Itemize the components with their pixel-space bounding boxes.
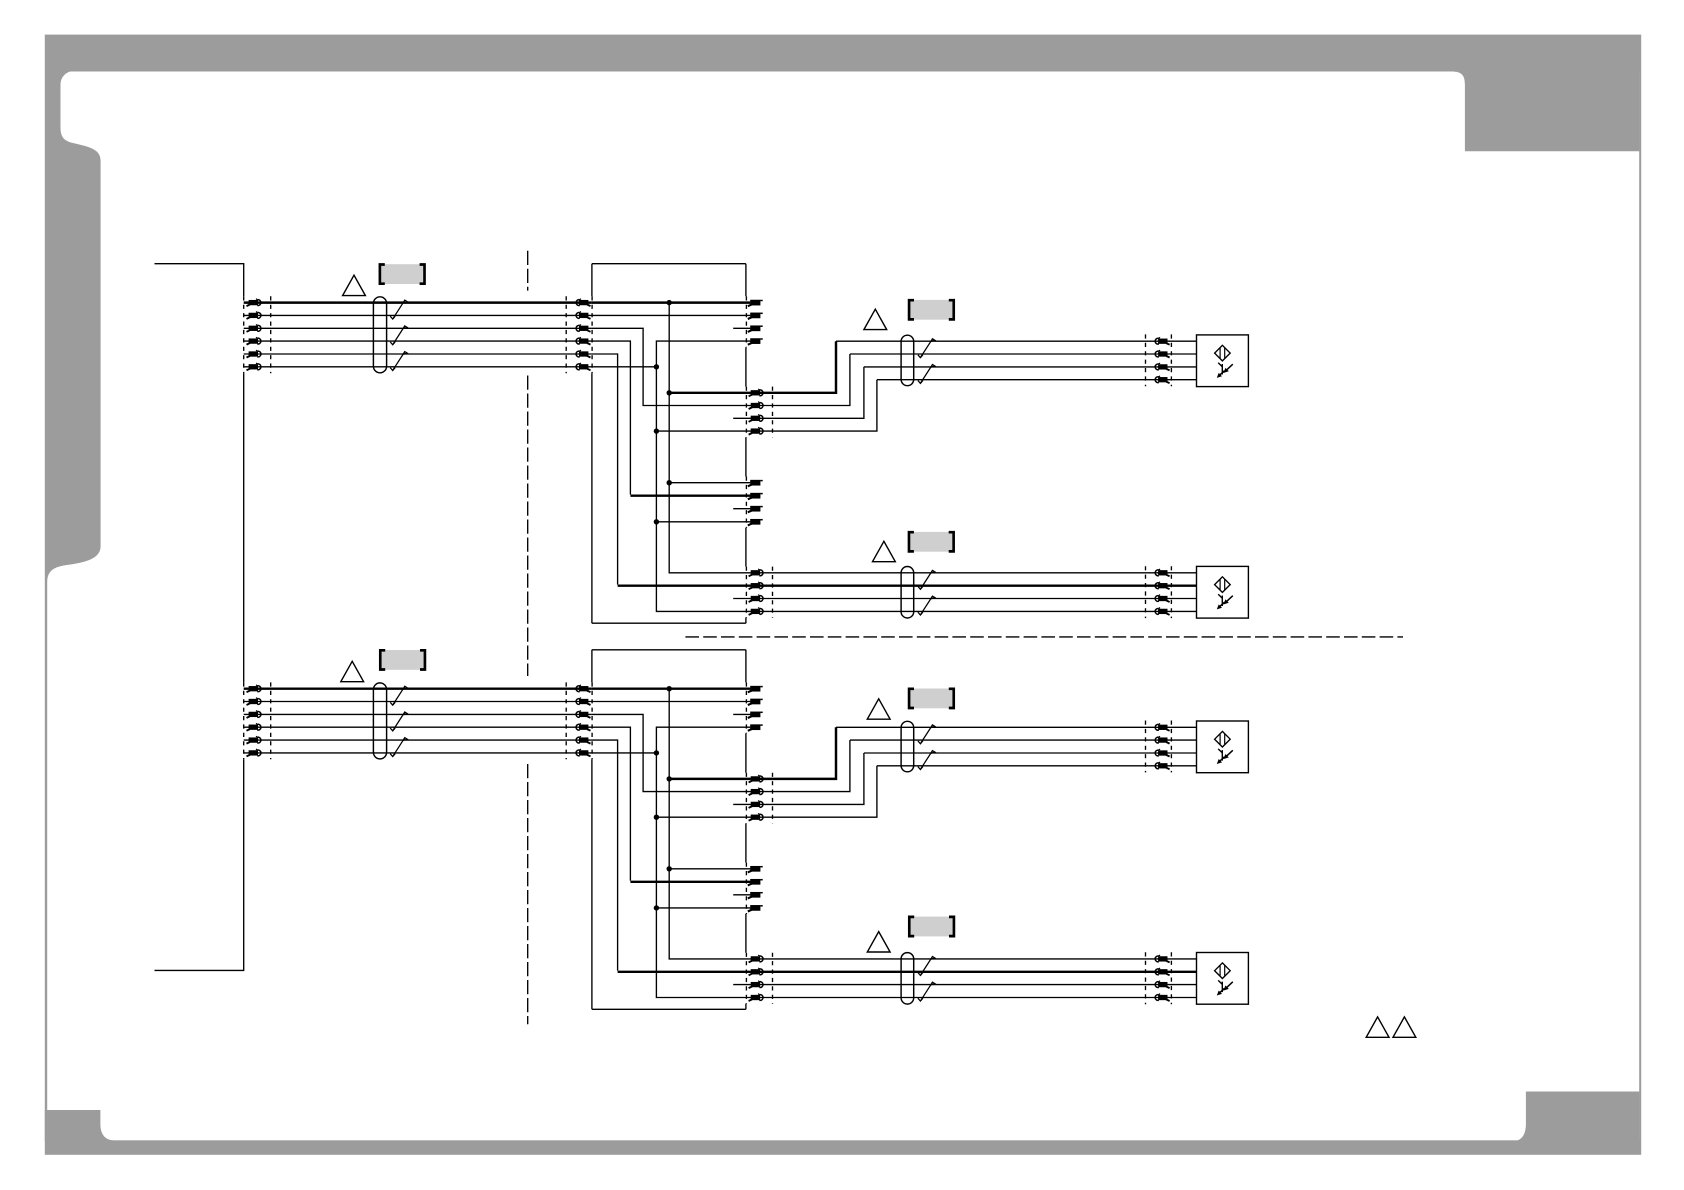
pin (relay box B input 4) xyxy=(576,723,590,730)
pin (relay box B input 3) xyxy=(576,711,590,718)
sensor 1 cable mark (left) xyxy=(1145,721,1147,773)
redacted reference label (sensor cable 1) xyxy=(909,689,954,709)
pin (left unit A1) xyxy=(247,299,261,306)
pin (left unit A3) xyxy=(247,324,261,331)
wire to B4 xyxy=(656,430,751,432)
wire to C4 xyxy=(656,907,750,909)
sensor cable 1 twisted pair 1-2 xyxy=(918,725,935,744)
redacted reference label (harnessB) xyxy=(380,650,425,670)
n.c. stub A3 xyxy=(733,327,750,329)
wire harnessA conductor 4 xyxy=(244,340,592,342)
header pin C1 xyxy=(748,866,763,872)
wire w4 down xyxy=(592,341,631,494)
sensor cable 2 shield xyxy=(901,567,914,619)
junction C1 xyxy=(667,480,672,485)
pin (left unit A4) xyxy=(247,337,261,344)
wire w4 to C2 (thick) xyxy=(630,494,751,496)
photo sensor unit 1 xyxy=(1197,335,1249,387)
pin (left unit B4) xyxy=(247,723,261,730)
junction B4 xyxy=(654,428,659,433)
pin (relay box A input 5) xyxy=(576,350,590,357)
relay box group-C boundary xyxy=(745,477,747,528)
relay box group-B boundary xyxy=(745,387,747,438)
wire to B1 (thick) xyxy=(669,778,751,780)
photo sensor unit 2 xyxy=(1197,953,1249,1005)
pin (left unit A2) xyxy=(247,312,261,319)
sensor cable 2 conductor 2 xyxy=(751,584,1197,586)
harnessA twisted pair 1-2 xyxy=(390,300,407,319)
relay box group-D boundary xyxy=(745,567,747,618)
sensor cable 1 riser 4 xyxy=(751,766,877,817)
junction B4 xyxy=(654,815,659,820)
pin (left unit B6) xyxy=(247,749,261,756)
pin (left unit B3) xyxy=(247,711,261,718)
wire harnessB conductor 4 xyxy=(244,726,592,728)
wire w5 to D2 (thick) xyxy=(618,584,751,586)
wire harnessB conductor 2 xyxy=(244,701,592,703)
section divider dashed line xyxy=(685,636,1403,638)
n.c. stub D3 xyxy=(733,598,751,600)
warning triangle (harnessA) xyxy=(343,275,366,295)
sensor 2 cable mark (right) xyxy=(1170,952,1172,1004)
plug pin B3 xyxy=(749,414,763,421)
sensor cable 1 riser 2 xyxy=(751,740,850,792)
relay box group-C boundary xyxy=(745,863,747,914)
sensor cable 1 riser 4 xyxy=(751,380,877,431)
wire to B1 (thick) xyxy=(669,392,751,394)
sensor cable 2 conductor 1 xyxy=(751,958,1197,960)
redacted reference label (sensor cable 2) xyxy=(909,532,954,552)
plug pin D3 xyxy=(749,595,763,602)
wire w6 xyxy=(592,752,657,754)
sensor cable 1 conductor 2 xyxy=(850,739,1197,741)
warning triangle (sensor cable 1) xyxy=(867,699,890,719)
harnessB cable mark (right) xyxy=(565,682,567,759)
wire w3 to B2 xyxy=(592,328,751,405)
wire w2 to A2 xyxy=(592,701,751,703)
header pin A1 xyxy=(748,300,763,306)
plug pin D3 xyxy=(749,981,763,988)
n.c. stub C3 xyxy=(733,894,750,896)
sensor cable 1 conductor 4 xyxy=(877,765,1197,767)
wire w5 to D2 (thick) xyxy=(618,971,751,973)
relay box group-A boundary xyxy=(745,682,747,733)
header pin C3 xyxy=(748,892,763,898)
pin (sensor 2 pin 2) xyxy=(1155,582,1169,589)
wire to B4 xyxy=(656,816,751,818)
warning triangle (sensor cable 2) xyxy=(873,541,896,561)
wire harnessB conductor 6 xyxy=(244,752,592,754)
plug pin D1 xyxy=(749,955,763,962)
chassis boundary dash-dot line xyxy=(527,251,529,1024)
sensor cable 1 shield xyxy=(901,721,914,772)
pin (relay box B input 2) xyxy=(576,698,590,705)
relay box group-A boundary xyxy=(745,296,747,347)
pin (sensor 2 pin 1) xyxy=(1155,955,1169,962)
n.c. stub D3 xyxy=(733,984,751,986)
n.c. stub B3 xyxy=(733,417,751,419)
relay connector box outline xyxy=(592,650,746,1010)
photo sensor unit 2 xyxy=(1197,566,1249,618)
wire to C4 xyxy=(656,521,750,523)
wire w4 down xyxy=(592,727,631,880)
sensor cable 1 conductor 3 xyxy=(864,366,1197,368)
pin (left unit B1) xyxy=(247,685,261,692)
plug pin B3 xyxy=(749,801,763,808)
warning triangle (sensor cable 1) xyxy=(864,309,887,329)
pin (left unit A5) xyxy=(247,350,261,357)
harnessB twisted pair 3-4 xyxy=(390,712,407,731)
pin (relay box A input 1) xyxy=(576,299,590,306)
wire w5 down xyxy=(592,740,618,971)
junction B1 xyxy=(667,776,672,781)
wire to C1 xyxy=(669,482,750,484)
harnessB shield xyxy=(373,683,386,759)
harnessB twisted pair 1-2 xyxy=(390,686,407,705)
harnessA cable mark (left) xyxy=(270,296,272,373)
sensor cable 1 conductor 1 xyxy=(836,726,1197,728)
sensor cable 2 twisted pair 1-2 xyxy=(918,957,935,976)
header pin C2 xyxy=(748,879,763,885)
sensor cable 2 twisted pair 1-2 xyxy=(918,570,935,589)
wire w3 to B2 xyxy=(592,714,751,791)
junction w1 xyxy=(667,300,672,305)
header pin A3 xyxy=(748,325,763,331)
relay connector box outline xyxy=(592,264,746,624)
plug pin B1 xyxy=(749,775,763,782)
wire harnessA conductor 3 xyxy=(244,327,592,329)
left unit connector boundary (upper) xyxy=(243,296,245,373)
relay box input boundary xyxy=(591,296,593,373)
pin (sensor 1 pin 1) xyxy=(1155,337,1169,344)
pin (relay box A input 6) xyxy=(576,363,590,370)
wire harnessA conductor 1 xyxy=(244,301,592,303)
junction w6 xyxy=(654,750,659,755)
sensor cable 2 conductor 4 xyxy=(751,610,1197,612)
relay box input boundary xyxy=(591,682,593,759)
group-D cable mark xyxy=(772,567,774,618)
pin (relay box A input 4) xyxy=(576,337,590,344)
wire harnessB conductor 1 xyxy=(244,687,592,689)
sensor 2 cable mark (left) xyxy=(1145,566,1147,618)
wire harnessB conductor 3 xyxy=(244,713,592,715)
junction w6 xyxy=(654,364,659,369)
header pin C2 xyxy=(748,493,763,499)
junction B1 xyxy=(667,390,672,395)
sensor cable 2 twisted pair 3-4 xyxy=(918,982,935,1001)
header pin A2 xyxy=(748,313,763,319)
header pin C4 xyxy=(748,905,763,911)
header pin A3 xyxy=(748,712,763,718)
wire w1 to A1 xyxy=(592,301,751,303)
relay box group-B boundary xyxy=(745,773,747,824)
junction C4 xyxy=(654,905,659,910)
sensor cable 1 riser 1 xyxy=(751,727,836,779)
wire harnessB conductor 5 xyxy=(244,739,592,741)
pin (sensor 1 pin 1) xyxy=(1155,723,1169,730)
sensor cable 1 riser 2 xyxy=(751,354,850,406)
pin (relay box B input 5) xyxy=(576,736,590,743)
group-B cable mark xyxy=(772,387,774,438)
pin (sensor 2 pin 3) xyxy=(1155,981,1169,988)
header pin C4 xyxy=(748,519,763,525)
pin (relay box A input 2) xyxy=(576,312,590,319)
photo sensor unit 1 xyxy=(1197,721,1249,773)
plug pin D2 xyxy=(749,582,763,589)
pin (sensor 1 pin 4) xyxy=(1155,376,1169,383)
note triangle 2 xyxy=(1393,1017,1416,1037)
sensor cable 2 twisted pair 3-4 xyxy=(918,596,935,615)
pin (sensor 2 pin 4) xyxy=(1155,608,1169,615)
wire harnessA conductor 6 xyxy=(244,366,592,368)
harnessA cable mark (right) xyxy=(565,296,567,373)
sensor cable 1 conductor 1 xyxy=(836,340,1197,342)
group-B cable mark xyxy=(772,773,774,824)
redacted reference label (sensor cable 1) xyxy=(909,300,954,320)
pin (sensor 1 pin 3) xyxy=(1155,749,1169,756)
pin (sensor 1 pin 3) xyxy=(1155,363,1169,370)
wire w5 down xyxy=(592,354,618,585)
pin (sensor 2 pin 4) xyxy=(1155,994,1169,1001)
plug pin D4 xyxy=(749,994,763,1001)
plug pin D2 xyxy=(749,968,763,975)
bus w1-B1-C1-D1 xyxy=(669,303,751,573)
warning triangle (harnessB) xyxy=(341,661,364,681)
junction C4 xyxy=(654,519,659,524)
relay box group-D boundary xyxy=(745,953,747,1004)
plug pin B2 xyxy=(749,402,763,409)
plug pin B4 xyxy=(749,427,763,434)
pin (relay box B input 1) xyxy=(576,685,590,692)
sensor cable 2 conductor 2 xyxy=(751,971,1197,973)
sensor cable 2 conductor 3 xyxy=(751,598,1197,600)
pin (relay box A input 3) xyxy=(576,324,590,331)
sensor cable 1 shield xyxy=(901,335,914,386)
plug pin D4 xyxy=(749,608,763,615)
sensor cable 2 shield xyxy=(901,953,914,1005)
sensor cable 2 conductor 4 xyxy=(751,997,1197,999)
sensor cable 1 twisted pair 3-4 xyxy=(918,365,935,384)
redacted reference label (sensor cable 2) xyxy=(909,917,954,937)
plug pin B1 xyxy=(749,389,763,396)
bus A4-w6-B4-C4-D4 xyxy=(656,341,751,611)
warning triangle (sensor cable 2) xyxy=(867,932,890,952)
harnessB twisted pair 5-6 xyxy=(390,738,407,757)
sensor cable 1 riser 1 xyxy=(751,341,836,393)
sensor cable 1 conductor 3 xyxy=(864,752,1197,754)
wire to C1 xyxy=(669,868,750,870)
plug pin B2 xyxy=(749,788,763,795)
pin (sensor 1 pin 2) xyxy=(1155,350,1169,357)
harnessA twisted pair 3-4 xyxy=(390,326,407,345)
pin (sensor 2 pin 2) xyxy=(1155,968,1169,975)
sensor 2 cable mark (left) xyxy=(1145,952,1147,1004)
harnessA twisted pair 5-6 xyxy=(390,352,407,371)
sensor 1 cable mark (right) xyxy=(1170,334,1172,386)
wire w1 to A1 xyxy=(592,687,751,689)
pin (sensor 2 pin 1) xyxy=(1155,569,1169,576)
n.c. stub A3 xyxy=(733,713,750,715)
header pin A1 xyxy=(748,686,763,692)
sensor cable 1 twisted pair 1-2 xyxy=(918,339,935,358)
sensor cable 2 conductor 3 xyxy=(751,984,1197,986)
pin (left unit B2) xyxy=(247,698,261,705)
redacted reference label (harnessA) xyxy=(380,264,425,284)
harnessA shield xyxy=(373,297,386,373)
sensor 1 cable mark (left) xyxy=(1145,334,1147,386)
sensor cable 1 riser 3 xyxy=(751,753,864,804)
wire w6 xyxy=(592,366,657,368)
n.c. stub C3 xyxy=(733,508,750,510)
plug pin D1 xyxy=(749,569,763,576)
pin (relay box B input 6) xyxy=(576,749,590,756)
wire w4 to C2 (thick) xyxy=(630,881,751,883)
sensor cable 1 twisted pair 3-4 xyxy=(918,751,935,770)
header pin C3 xyxy=(748,506,763,512)
sensor cable 1 conductor 2 xyxy=(850,353,1197,355)
junction w1 xyxy=(667,686,672,691)
header pin A4 xyxy=(748,724,763,730)
bus w1-B1-C1-D1 xyxy=(669,689,751,959)
sensor cable 2 conductor 1 xyxy=(751,572,1197,574)
header pin A4 xyxy=(748,338,763,344)
wire w2 to A2 xyxy=(592,314,751,316)
wire harnessA conductor 2 xyxy=(244,314,592,316)
harnessB cable mark (left) xyxy=(270,682,272,759)
bus A4-w6-B4-C4-D4 xyxy=(656,727,751,997)
sensor 2 cable mark (right) xyxy=(1170,566,1172,618)
left unit connector boundary (lower) xyxy=(243,682,245,759)
sensor 1 cable mark (right) xyxy=(1170,721,1172,773)
wire harnessA conductor 5 xyxy=(244,353,592,355)
header pin A2 xyxy=(748,699,763,705)
note triangle 1 xyxy=(1366,1017,1389,1037)
sensor cable 1 riser 3 xyxy=(751,367,864,418)
n.c. stub B3 xyxy=(733,803,751,805)
group-D cable mark xyxy=(772,953,774,1004)
pin (left unit A6) xyxy=(247,363,261,370)
pin (sensor 1 pin 2) xyxy=(1155,736,1169,743)
header pin C1 xyxy=(748,480,763,486)
plug pin B4 xyxy=(749,813,763,820)
junction C1 xyxy=(667,866,672,871)
pin (left unit B5) xyxy=(247,736,261,743)
pin (sensor 2 pin 3) xyxy=(1155,595,1169,602)
pin (sensor 1 pin 4) xyxy=(1155,762,1169,769)
left unit outline xyxy=(155,264,244,971)
sensor cable 1 conductor 4 xyxy=(877,379,1197,381)
